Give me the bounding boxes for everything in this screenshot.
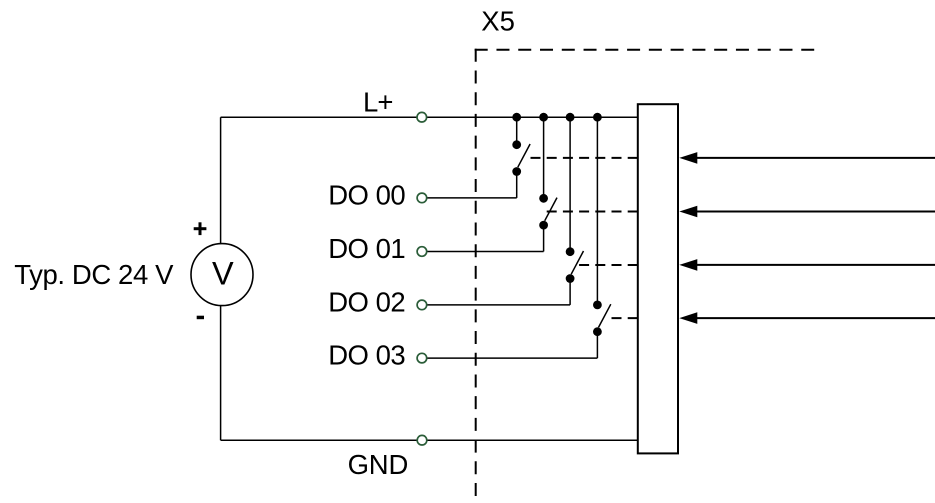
module block <box>638 104 678 453</box>
svg-text:Typ. DC 24 V: Typ. DC 24 V <box>14 259 174 290</box>
wire DO 03 <box>422 357 598 359</box>
junction dot bus 2 <box>539 113 548 122</box>
terminal DO 00 <box>417 193 427 203</box>
junction dot bus 3 <box>566 113 575 122</box>
wire DO 00 <box>422 197 517 199</box>
wire DO 02 <box>422 304 570 306</box>
minus polarity mark <box>197 316 204 320</box>
voltage source V <box>191 244 253 306</box>
arrow input 3 <box>679 259 935 271</box>
switch S4 (DO 03) <box>593 117 611 358</box>
terminal DO 01 <box>417 247 427 257</box>
svg-text:DO 02: DO 02 <box>328 287 405 318</box>
switch S2 (DO 01) <box>539 117 557 251</box>
arrow input 1 <box>679 152 935 164</box>
svg-text:V: V <box>212 255 234 291</box>
connector X5 boundary dashed horizontal <box>475 49 815 51</box>
control dashed line DO 01 <box>547 211 638 213</box>
wire DO 01 <box>422 251 544 253</box>
switch S3 (DO 02) <box>566 117 584 305</box>
control dashed line DO 00 <box>529 157 638 159</box>
plus polarity mark <box>194 222 207 235</box>
arrow input 4 <box>679 312 935 324</box>
svg-text:DO 00: DO 00 <box>328 180 405 211</box>
control dashed line DO 02 <box>579 264 638 266</box>
wire left rail from voltage source <box>220 117 222 440</box>
connector X5 boundary dashed vertical <box>475 49 477 496</box>
junction dot bus 1 <box>512 113 521 122</box>
switch S1 (DO 00) <box>512 117 530 198</box>
svg-text:DO 01: DO 01 <box>328 233 405 264</box>
arrow input 2 <box>679 206 935 218</box>
terminal L+ <box>417 112 427 122</box>
control dashed line DO 03 <box>611 317 638 319</box>
junction dot bus 4 <box>593 113 602 122</box>
svg-text:DO 03: DO 03 <box>328 340 405 371</box>
terminal GND <box>417 435 427 445</box>
terminal DO 02 <box>417 300 427 310</box>
svg-text:X5: X5 <box>481 6 515 37</box>
terminal DO 03 <box>417 353 427 363</box>
wire GND <box>221 439 638 441</box>
svg-text:L+: L+ <box>363 87 393 118</box>
wire L+ bus <box>221 116 638 118</box>
svg-text:GND: GND <box>348 449 409 480</box>
